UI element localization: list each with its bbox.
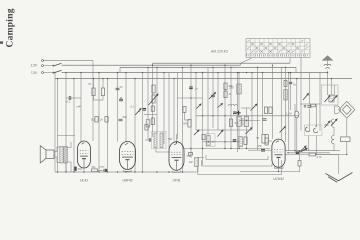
- junction: [288, 72, 289, 73]
- trimmer arrow: [280, 127, 286, 133]
- wire: [315, 136, 317, 155]
- wire: [239, 120, 260, 122]
- wire: [331, 79, 333, 95]
- junction: [65, 171, 66, 172]
- wire: [278, 168, 280, 171]
- resistor R23: [189, 153, 193, 156]
- wire: [299, 166, 301, 172]
- svg-text:50n: 50n: [123, 115, 128, 119]
- wire: [300, 103, 320, 105]
- junction: [257, 67, 258, 68]
- capacitor C10: [289, 82, 292, 83]
- wire: [54, 147, 57, 152]
- capacitor C2: [116, 88, 120, 90]
- wire: [280, 67, 282, 139]
- chassis ground: [326, 173, 353, 183]
- junction: [57, 78, 58, 79]
- junction: [73, 78, 74, 79]
- wire: [144, 114, 157, 116]
- wire: [212, 67, 214, 128]
- wire: [290, 73, 292, 110]
- resistor R19: [151, 118, 154, 125]
- junction: [202, 72, 203, 73]
- potentiometer P1 arrow: [149, 94, 159, 105]
- IF transformer T2 box: [152, 132, 167, 149]
- wire: [288, 73, 290, 151]
- junction: [212, 141, 213, 142]
- wire antenna lead: [327, 60, 329, 64]
- wire: [333, 144, 335, 151]
- capacitor C3: [119, 119, 123, 121]
- wire: [288, 152, 330, 154]
- junction: [212, 115, 213, 116]
- wire: [315, 104, 317, 126]
- wire: [127, 170, 129, 173]
- wire: [285, 154, 309, 156]
- junction: [230, 148, 231, 149]
- wire: [156, 67, 158, 133]
- wire: [93, 79, 95, 88]
- junction: [156, 171, 157, 172]
- wire: [203, 141, 241, 143]
- junction: [190, 148, 191, 149]
- svg-text:7,5V: 7,5V: [31, 71, 38, 75]
- junction: [93, 78, 94, 79]
- switch S1: [53, 63, 62, 66]
- capacitor C12: [308, 106, 312, 108]
- wire: [66, 97, 69, 99]
- wire: [173, 79, 175, 141]
- switch arrow: [218, 104, 223, 108]
- junction: [237, 72, 238, 73]
- wire: [177, 73, 179, 140]
- component box left of tube V4: [265, 138, 268, 145]
- wire: [237, 73, 239, 152]
- resistor R20: [202, 135, 205, 140]
- svg-text:0,1: 0,1: [67, 100, 71, 104]
- switch arrow: [303, 94, 309, 101]
- wire: [71, 97, 81, 99]
- wire: [117, 73, 119, 142]
- resistor R24: [183, 107, 186, 113]
- IF transformer T3 box: [206, 134, 215, 147]
- capacitor C7: [149, 138, 150, 141]
- wire: [107, 79, 109, 172]
- svg-text:UCH42: UCH42: [273, 177, 284, 181]
- resistor R2: [101, 88, 104, 96]
- svg-text:n4F: n4F: [77, 105, 82, 109]
- wire: [260, 115, 299, 117]
- coil L6b: [244, 117, 248, 127]
- wire: [190, 65, 192, 158]
- junction: [224, 148, 225, 149]
- wire: [207, 67, 209, 135]
- svg-text:200: 200: [228, 86, 234, 90]
- wire: [309, 109, 311, 131]
- wire: [296, 79, 298, 111]
- junction: [331, 78, 332, 79]
- jack curve 2: [313, 128, 317, 133]
- wire: [334, 85, 336, 96]
- junction: [156, 67, 157, 68]
- junction: [195, 72, 196, 73]
- svg-text:5n: 5n: [293, 83, 296, 87]
- capacitor C8 padder: [233, 112, 237, 114]
- junction: [272, 65, 273, 66]
- junction: [117, 171, 118, 172]
- tube V4 mixer: [272, 139, 285, 167]
- wire: [58, 135, 76, 137]
- junction: [224, 65, 225, 66]
- switch S2: [53, 70, 62, 73]
- wire: [147, 127, 149, 140]
- variable capacitor CV1: [325, 96, 331, 103]
- junction: [346, 154, 347, 155]
- junction: [190, 65, 191, 66]
- capacitor C4: [119, 99, 123, 101]
- wire tube V2 bottom: [124, 170, 132, 171]
- wire: [65, 164, 67, 173]
- wire: [319, 73, 321, 131]
- wire: [65, 73, 67, 172]
- wire: [44, 72, 54, 74]
- junction: [54, 72, 55, 73]
- resistor R15: [309, 153, 316, 156]
- wire: [67, 142, 71, 148]
- junction: [238, 148, 239, 149]
- svg-text:1,5V: 1,5V: [31, 64, 38, 68]
- resistor R7: [224, 83, 227, 90]
- wire: [238, 127, 240, 149]
- wire: [262, 73, 264, 135]
- capacitor C16: [143, 109, 147, 111]
- coil L13: [284, 90, 287, 101]
- junction: [202, 148, 203, 149]
- wire grid cap lead: [176, 134, 178, 143]
- junction: [83, 171, 84, 172]
- capacitor C1: [69, 96, 71, 100]
- wire: [198, 158, 204, 173]
- wire: [83, 168, 85, 172]
- junction: [138, 111, 139, 112]
- switch arrow: [301, 148, 307, 151]
- wire: [201, 160, 203, 166]
- wire: [80, 73, 82, 142]
- resistor R21: [244, 137, 247, 145]
- wire: [184, 148, 271, 150]
- variable capacitor CV3: [325, 121, 331, 128]
- wire: [246, 127, 248, 149]
- speaker LS: [40, 146, 54, 163]
- wire: [205, 155, 207, 160]
- wire: [134, 79, 136, 172]
- wire bottom bus: [55, 171, 197, 173]
- wire: [202, 73, 204, 165]
- wire: [196, 129, 252, 131]
- junction: [168, 171, 169, 172]
- wire: [316, 154, 347, 156]
- capacitor C6: [211, 95, 215, 97]
- resistor R17: [229, 119, 232, 127]
- resistor R6: [152, 95, 155, 103]
- wire: [93, 96, 95, 101]
- resistor R22: [311, 104, 316, 107]
- junction: [80, 72, 81, 73]
- wire: [333, 127, 335, 136]
- svg-text:700: 700: [168, 137, 173, 141]
- junction: [278, 171, 279, 172]
- connector plug: [335, 106, 341, 113]
- resistor R1: [92, 88, 95, 96]
- wire antenna drop: [327, 71, 329, 86]
- trimmer arrow: [218, 130, 224, 137]
- svg-text:5n: 5n: [120, 85, 123, 89]
- capacitor C17: [233, 140, 237, 142]
- svg-text:10n: 10n: [189, 160, 194, 164]
- junction: [246, 72, 247, 73]
- wire: [295, 67, 297, 72]
- junction: [238, 72, 239, 73]
- wire: [54, 73, 56, 79]
- coil L7: [329, 95, 334, 102]
- switch arrow: [300, 146, 307, 152]
- wire: [251, 73, 253, 130]
- resistor R3: [95, 117, 98, 123]
- edge mark: [0, 41, 3, 43]
- junction: [316, 125, 317, 126]
- wave switch arrow 2: [246, 128, 253, 135]
- wire: [163, 73, 165, 144]
- junction: [290, 72, 291, 73]
- junction: [120, 97, 121, 98]
- junction: [190, 97, 191, 98]
- svg-text:0,1: 0,1: [91, 118, 95, 122]
- capacitor C5: [189, 87, 193, 89]
- coil L5: [237, 84, 241, 94]
- wire: [54, 157, 57, 163]
- variable capacitor CV2: [332, 96, 338, 103]
- capacitor C11 electrolytic: [295, 111, 299, 118]
- wire: [309, 73, 311, 105]
- wire: [152, 65, 154, 137]
- junction: [182, 67, 183, 68]
- wire: [73, 79, 75, 172]
- junction: [147, 67, 148, 68]
- polarity mark: [106, 169, 108, 172]
- wire: [285, 67, 287, 142]
- terminal b: [42, 65, 44, 67]
- wire: [346, 142, 348, 155]
- capacitor C9: [263, 119, 267, 121]
- wire: [168, 73, 170, 150]
- svg-text:700: 700: [324, 123, 329, 127]
- coil L11: [146, 120, 150, 127]
- junction: [142, 171, 143, 172]
- jack curve 1: [305, 127, 309, 132]
- resistor R13: [264, 107, 267, 114]
- junction: [246, 148, 247, 149]
- svg-text:50k: 50k: [183, 122, 188, 126]
- junction: [152, 65, 153, 66]
- loop antenna diamond inner: [342, 105, 351, 115]
- tube V1 output pentode: [78, 141, 91, 168]
- wave switch arrow: [251, 104, 258, 111]
- terminal a: [42, 60, 44, 62]
- svg-text:2k: 2k: [228, 92, 232, 96]
- junction: [296, 78, 297, 79]
- resistor R18: [151, 106, 154, 111]
- junction: [53, 72, 54, 73]
- wire left rail: [54, 79, 56, 172]
- wire: [316, 154, 339, 156]
- wire bus B2 riser: [289, 58, 291, 64]
- wire: [197, 167, 199, 175]
- resistor R8: [224, 91, 227, 98]
- wire: [224, 65, 226, 148]
- wire: [240, 63, 242, 65]
- junction: [285, 67, 286, 68]
- junction: [299, 150, 300, 151]
- svg-text:0,1: 0,1: [131, 105, 135, 109]
- resistor R9: [188, 120, 191, 128]
- svg-text:1n: 1n: [195, 87, 198, 91]
- wire bus C: [62, 72, 328, 74]
- wire: [265, 149, 272, 151]
- wire tube V3 bottom: [173, 171, 181, 173]
- tuning gang box: [322, 85, 339, 105]
- transformer T1 secondary: [64, 147, 67, 164]
- wire: [240, 171, 300, 173]
- antenna choke: [324, 64, 331, 69]
- wire tube V4 bottom: [275, 166, 284, 168]
- wire: [196, 115, 260, 117]
- svg-text:UL41: UL41: [80, 179, 88, 183]
- wire: [285, 150, 340, 152]
- wire: [145, 139, 149, 141]
- junction: [251, 72, 252, 73]
- resistor R13b: [284, 81, 287, 87]
- svg-text:2k: 2k: [99, 118, 103, 122]
- wire: [119, 67, 121, 72]
- junction: [230, 67, 231, 68]
- wire loop inner: [206, 156, 268, 160]
- wire: [308, 136, 310, 151]
- junction: [125, 171, 126, 172]
- junction: [134, 78, 135, 79]
- resistor R5: [152, 85, 155, 93]
- switch arrow: [194, 130, 199, 135]
- resistor R11: [262, 135, 265, 144]
- junction: [163, 72, 164, 73]
- junction: [212, 67, 213, 68]
- junction: [224, 115, 225, 116]
- junction: [202, 72, 203, 73]
- resistor R4: [105, 117, 108, 123]
- coil L6: [237, 117, 241, 127]
- svg-text:UF41: UF41: [172, 179, 180, 183]
- wire: [152, 63, 154, 65]
- wire: [299, 155, 301, 161]
- wire: [182, 67, 184, 172]
- tube socket table: [246, 39, 310, 58]
- wire bus B riser: [241, 58, 252, 63]
- tube V2 AF pentode: [120, 142, 136, 170]
- wire: [44, 65, 54, 67]
- junction: [125, 72, 126, 73]
- wire: [257, 67, 259, 150]
- junction: [117, 72, 118, 73]
- terminal c: [42, 72, 44, 74]
- junction: [182, 171, 183, 172]
- svg-text:0,2: 0,2: [235, 121, 239, 125]
- svg-text:Camping: Camping: [6, 8, 16, 47]
- svg-text:4,7k: 4,7k: [317, 155, 323, 159]
- wire: [230, 67, 232, 148]
- capacitor C13: [296, 152, 300, 154]
- coil bumps: [228, 104, 238, 106]
- junction: [65, 72, 66, 73]
- coil L8b arcs: [331, 136, 334, 144]
- capacitor C14: [104, 169, 105, 172]
- wire: [125, 73, 127, 142]
- junction: [217, 72, 218, 73]
- wire: [296, 118, 298, 153]
- resistor R10: [145, 125, 148, 131]
- junction: [142, 72, 143, 73]
- wire: [102, 79, 104, 88]
- junction: [262, 72, 263, 73]
- wire: [147, 67, 149, 119]
- junction: [107, 78, 108, 79]
- wire bus B2: [153, 62, 291, 64]
- coil L8 arcs: [331, 119, 334, 127]
- wire: [300, 58, 302, 131]
- wire: [327, 85, 329, 95]
- wire: [246, 108, 248, 117]
- junction: [246, 120, 247, 121]
- wire: [184, 113, 186, 121]
- wire bus D: [55, 78, 352, 80]
- wire: [142, 73, 144, 172]
- wire: [98, 73, 100, 172]
- resistor R16: [92, 169, 98, 172]
- resistor R12: [265, 135, 268, 144]
- junction: [102, 78, 103, 79]
- wire ground stem: [338, 155, 340, 175]
- svg-text:Ant 220 kΩ: Ant 220 kΩ: [210, 50, 228, 54]
- wire: [178, 97, 203, 99]
- wire: [67, 162, 71, 172]
- junction: [176, 142, 177, 143]
- wire bus A: [44, 60, 93, 62]
- switch arrow: [197, 104, 202, 109]
- wire: [268, 140, 272, 142]
- junction: [98, 72, 99, 73]
- wire: [241, 107, 251, 109]
- resistor R25: [298, 161, 301, 167]
- wire: [185, 119, 190, 121]
- junction: [287, 152, 288, 153]
- switch arrow 3: [301, 149, 307, 152]
- tube V3 IF pentode: [169, 142, 184, 171]
- coil L3: [154, 133, 157, 148]
- loop antenna diamond outer: [339, 101, 355, 118]
- wire: [294, 104, 296, 151]
- coil L10: [207, 136, 210, 146]
- transformer T1 primary: [60, 147, 63, 164]
- switch arrow: [135, 109, 141, 116]
- junction: [134, 171, 135, 172]
